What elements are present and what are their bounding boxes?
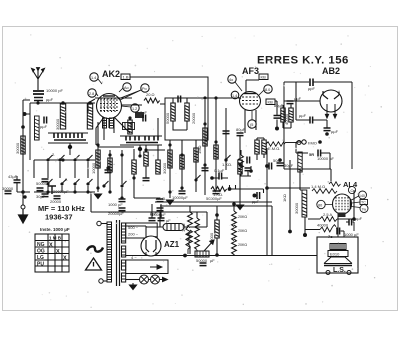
tuning gang row 1	[48, 133, 88, 143]
wire bus98 dots	[203, 96, 206, 99]
tube AZ1 anodes	[146, 240, 156, 252]
capacitor 160b	[157, 208, 164, 211]
terminal det	[297, 141, 301, 145]
capacitor 1000uF	[119, 199, 126, 202]
capacitor 30uF	[42, 194, 49, 197]
speaker terminal 2	[347, 271, 351, 275]
output transformer winding	[330, 244, 346, 250]
zig resistor 1K vertical	[239, 155, 244, 171]
svg-text:NG: NG	[37, 242, 45, 248]
band switch row A	[47, 155, 53, 161]
wire caps link	[341, 222, 354, 237]
switch 226	[225, 155, 231, 161]
svg-text:2.5 A: 2.5 A	[323, 212, 332, 217]
node 216b	[214, 96, 217, 99]
svg-text:KB: KB	[261, 75, 267, 80]
tube AL4 grids	[336, 197, 348, 211]
svg-text:2.: 2.	[65, 177, 68, 182]
pin circle af3 bottom	[248, 120, 256, 128]
svg-text:AF3: AF3	[242, 66, 259, 76]
resistor 217	[215, 220, 219, 238]
switch 196	[195, 175, 201, 181]
node h	[214, 140, 217, 143]
svg-text:2.: 2.	[52, 152, 55, 157]
band switch	[61, 179, 67, 185]
svg-text:Inste. 1000 µF: Inste. 1000 µF	[40, 227, 70, 232]
svg-text:µµF: µµF	[40, 124, 48, 129]
capacitor 182	[179, 191, 186, 194]
coil IFT1 b	[185, 103, 189, 121]
svg-text:1KΩ: 1KΩ	[282, 194, 287, 202]
tube AZ1 pins	[146, 236, 156, 256]
svg-text:AB2: AB2	[322, 66, 340, 76]
capacitor 216	[213, 191, 220, 194]
node left top	[21, 125, 25, 129]
wire vert 216	[215, 98, 217, 190]
zig chain c	[232, 239, 237, 255]
svg-text:30000: 30000	[294, 202, 299, 214]
capacitor 152	[149, 218, 156, 221]
svg-text:2pF: 2pF	[140, 110, 147, 115]
zig resistor 1K horizontal	[211, 187, 227, 192]
wire 5R	[296, 142, 308, 153]
wire 217	[216, 206, 218, 254]
node gang1	[68, 145, 72, 149]
wire fuse	[146, 226, 188, 228]
capacitor 0.1uF	[219, 173, 222, 180]
primary winding	[107, 222, 112, 282]
node b	[108, 153, 111, 156]
wire mains lead top	[101, 223, 107, 225]
node bus 185	[183, 254, 187, 258]
tube AF3 envelope	[240, 92, 261, 111]
svg-text:80µF: 80µF	[236, 127, 246, 132]
wire vert 98	[97, 122, 99, 192]
svg-text:µpF: µpF	[308, 86, 316, 91]
tube AB2 pins	[325, 104, 336, 118]
pin circle 140	[359, 191, 367, 199]
svg-text:20000: 20000	[191, 112, 196, 124]
capacitor det2	[269, 163, 272, 170]
pot box 50000	[195, 251, 209, 257]
earth terminal circle	[21, 205, 25, 209]
dial lamp 2	[151, 275, 160, 284]
coil antenna secondary	[87, 104, 92, 129]
svg-text:AK2: AK2	[102, 69, 120, 79]
pin circle af3 left	[231, 91, 239, 99]
node gang2	[138, 147, 142, 151]
svg-text:40000: 40000	[284, 113, 289, 125]
tube base bar 1	[103, 118, 107, 128]
wire bus 206	[160, 205, 272, 207]
ground earth arrow	[19, 209, 28, 223]
node 305	[303, 233, 307, 237]
zig resistor 197	[195, 218, 200, 234]
node det2	[265, 164, 269, 168]
node x5	[86, 190, 89, 193]
svg-text:2.8: 2.8	[89, 92, 94, 96]
svg-text:1.4: 1.4	[232, 94, 237, 98]
svg-text:C: C	[351, 189, 354, 193]
coil det a	[281, 108, 285, 122]
node 247	[249, 169, 253, 173]
wire coil det	[283, 105, 291, 129]
node g2	[203, 163, 206, 166]
wire vert 267	[266, 148, 268, 255]
capacitor 160	[157, 199, 164, 202]
wire tube down	[104, 118, 114, 140]
svg-text:10000µF: 10000µF	[172, 195, 188, 200]
svg-text:µµF: µµF	[294, 96, 302, 101]
svg-text:µF: µF	[166, 218, 171, 223]
wire lower bus	[34, 186, 95, 192]
resistor left 30000	[21, 136, 25, 154]
node 108	[106, 166, 109, 169]
coil det b	[289, 108, 293, 122]
pickup S symbol	[87, 246, 103, 251]
field coil box	[328, 251, 348, 257]
resistor 300 vertical	[298, 152, 302, 172]
band switch row B	[47, 179, 53, 185]
svg-text:1.4: 1.4	[91, 76, 96, 80]
tube AZ1 envelope	[141, 236, 161, 256]
wire vert 158	[157, 118, 159, 160]
pot wiper arrow	[204, 240, 214, 251]
svg-text:10000: 10000	[91, 162, 96, 174]
svg-text:80: 80	[318, 204, 322, 208]
node a	[96, 143, 99, 146]
node top	[61, 101, 64, 104]
node 234	[232, 202, 236, 206]
lamp box	[126, 260, 168, 274]
node 140b	[138, 154, 141, 157]
svg-text:µF: µF	[210, 258, 215, 263]
wire horiz 98	[208, 97, 240, 99]
band switch	[74, 179, 80, 185]
wire tube diagonal 2	[96, 117, 104, 145]
svg-text:30000: 30000	[15, 142, 20, 154]
node e	[168, 143, 171, 146]
wire left vertical	[22, 100, 24, 205]
tube AK2 grids	[100, 98, 118, 112]
capacitor 2000uF	[119, 208, 126, 211]
wire mains lead bottom	[103, 280, 107, 282]
svg-text:7w: 7w	[362, 208, 367, 212]
wire 290 vertical	[289, 160, 291, 230]
wire mains corner	[91, 192, 160, 212]
svg-text:E.M.Ω.: E.M.Ω.	[268, 146, 280, 151]
node 267	[265, 186, 269, 190]
node x2	[180, 153, 183, 156]
capacitor 5R	[318, 150, 321, 157]
warning triangle	[86, 258, 102, 270]
tube AB2 diode left	[323, 91, 328, 99]
ground osc	[166, 200, 173, 205]
svg-text:20.Ω: 20.Ω	[146, 92, 155, 97]
svg-text:E010: E010	[330, 252, 340, 257]
coil IFT2 b	[262, 140, 266, 154]
speaker cone	[324, 257, 352, 266]
tube AK2 envelope	[97, 94, 122, 119]
node bus	[215, 253, 219, 257]
wires af3 pins	[235, 82, 264, 120]
switch mid2	[121, 181, 127, 187]
tube AL4 envelope	[333, 194, 352, 214]
HT label box	[126, 223, 158, 238]
coil box outline	[165, 98, 208, 140]
pin circle a1	[123, 83, 131, 91]
tube AF3 grids	[242, 97, 258, 104]
svg-text:1000 µF: 1000 µF	[344, 232, 359, 237]
wire bottom bus 255	[126, 255, 317, 257]
wire earth link	[17, 176, 30, 192]
pin circle g4	[131, 104, 139, 112]
secondary winding 4	[122, 273, 126, 282]
wire ab2 bottom	[284, 153, 330, 169]
svg-text:20KΩ: 20KΩ	[238, 229, 247, 233]
band switch	[87, 179, 93, 185]
svg-text:1000 µF: 1000 µF	[108, 202, 123, 207]
wire vert 272	[271, 206, 273, 255]
svg-text:(5: (5	[250, 123, 253, 127]
wire input box top	[30, 103, 95, 160]
node lower2	[73, 190, 76, 193]
tube AK2 anode bar	[103, 95, 115, 97]
node lower	[46, 190, 49, 193]
wire az1 plate box	[160, 212, 207, 227]
svg-text:AZ1: AZ1	[164, 240, 180, 249]
wire af3 down	[240, 110, 256, 160]
svg-text:1 K Ω: 1 K Ω	[155, 196, 165, 201]
zig coupling	[329, 182, 341, 186]
svg-text:µµF: µµF	[355, 216, 363, 221]
wire vert 134	[133, 149, 135, 160]
wire lamp link	[149, 279, 151, 281]
component box 20000	[123, 123, 135, 130]
capacitor ab2 a	[310, 117, 313, 124]
pin circle af3 right	[264, 85, 272, 93]
wire cross 147	[98, 146, 134, 148]
capacitor uuF right	[349, 219, 352, 226]
tube AB2 envelope	[320, 90, 342, 112]
wire vert 205	[204, 100, 206, 195]
node fm1	[325, 132, 329, 136]
node 280	[278, 158, 282, 162]
capacitor 50000pF	[42, 179, 49, 182]
svg-text:KB: KB	[268, 100, 274, 105]
zig resistor 190b	[188, 230, 193, 246]
capacitor 146	[143, 178, 150, 181]
ground af3	[236, 205, 243, 210]
wire ab2 box top right	[284, 82, 352, 169]
secondary winding HT	[122, 223, 126, 243]
zig chain b	[232, 225, 237, 241]
wire left drop	[299, 169, 301, 190]
wire bus 202	[155, 201, 272, 203]
capacitor 20000pF	[54, 196, 61, 199]
arrow heater 1	[150, 265, 162, 269]
node osc	[128, 116, 131, 119]
capacitor 205	[202, 168, 209, 171]
wire switch bus	[34, 160, 95, 178]
node 229	[228, 187, 232, 191]
node t	[23, 195, 26, 198]
svg-text:µµF: µµF	[331, 129, 339, 134]
node top2	[88, 101, 91, 104]
svg-text:30µF: 30µF	[36, 194, 46, 199]
tube base bar 2	[110, 118, 114, 128]
svg-text:4 ~: 4 ~	[131, 255, 137, 260]
svg-text:8µF: 8µF	[150, 211, 158, 216]
box SR dark	[338, 213, 346, 218]
wire horiz 188	[267, 187, 310, 189]
coil antenna primary	[60, 104, 65, 129]
svg-text:FMO: FMO	[308, 141, 317, 146]
svg-text:200 ~: 200 ~	[128, 232, 139, 237]
wire mid bus	[95, 97, 132, 99]
capacitor ift top	[178, 96, 181, 103]
FMO terminal	[302, 140, 306, 144]
wire 01uf	[212, 177, 228, 179]
transformer core	[117, 220, 120, 286]
node x1	[108, 190, 111, 193]
node det	[275, 127, 279, 131]
wire vert 170 low	[169, 140, 171, 198]
svg-text:Ao: Ao	[124, 86, 129, 90]
node 98b	[96, 186, 99, 189]
capacitor 80uF det	[274, 116, 281, 119]
svg-text:ERRES K.Y. 156: ERRES K.Y. 156	[257, 55, 349, 67]
svg-text:X: X	[63, 256, 67, 262]
box KB1	[259, 74, 268, 80]
svg-text:30000: 30000	[162, 162, 167, 174]
capacitor ab2 b	[324, 128, 331, 131]
wire grid cap	[88, 99, 95, 112]
node input junction	[23, 112, 27, 116]
secondary winding 2	[122, 246, 126, 257]
zig resistor 188 vertical	[186, 227, 190, 254]
resistor 170	[168, 150, 172, 168]
svg-text:43µF: 43µF	[8, 174, 18, 179]
wire ab2 box top left	[284, 81, 309, 83]
svg-text:LG: LG	[37, 255, 44, 261]
wire al4 mid	[305, 190, 354, 237]
node f	[180, 186, 183, 189]
osc coil zig	[144, 98, 160, 103]
svg-text:20000: 20000	[50, 199, 62, 204]
wire 189 link	[236, 185, 264, 193]
svg-text:8.0: 8.0	[265, 88, 270, 92]
wire 134 low	[134, 174, 160, 198]
resistor 146	[144, 152, 148, 166]
svg-text:µµF: µµF	[299, 113, 307, 118]
svg-text:OG: OG	[37, 249, 45, 255]
wire az1 top pins	[146, 252, 156, 256]
wire vert 110	[109, 150, 111, 192]
tube AL4 cathode bar	[350, 199, 352, 209]
arrow heater 2	[160, 277, 168, 281]
svg-text:µµF: µµF	[46, 97, 54, 102]
pot hatch	[197, 251, 206, 257]
svg-text:1 M B: 1 M B	[49, 236, 62, 241]
box KB2	[266, 99, 275, 105]
svg-text:30000: 30000	[55, 118, 60, 130]
pin circle C	[348, 186, 355, 193]
capacitor 30uF top	[310, 79, 313, 87]
capacitor trimmer left	[44, 117, 47, 124]
resistor 158	[156, 160, 160, 174]
ground lamps	[129, 285, 136, 290]
node 146	[144, 148, 147, 151]
capacitor 161	[158, 218, 165, 221]
capacitor 1000	[337, 228, 340, 235]
wire ift inner	[173, 98, 187, 130]
wire ab2 mid	[296, 82, 310, 120]
node g	[203, 122, 206, 125]
resistor 110	[108, 158, 112, 172]
resistor osc grid	[128, 120, 132, 134]
node fmo dot	[318, 140, 322, 144]
wire gang down	[69, 143, 71, 155]
speaker terminal 1	[326, 271, 330, 275]
svg-text:20KΩ: 20KΩ	[238, 215, 247, 219]
svg-text:1.2: 1.2	[132, 107, 137, 111]
capacitor af3 cath	[245, 168, 252, 171]
wire 229	[230, 185, 236, 189]
node 212	[210, 176, 214, 180]
svg-text:140: 140	[359, 194, 365, 198]
svg-text:10000 pF: 10000 pF	[46, 88, 63, 93]
band table grid	[35, 234, 69, 272]
wire vert 226	[225, 108, 227, 170]
resistor 1.4M zig	[312, 189, 337, 194]
wire ab2 left	[284, 100, 320, 102]
pin circle 80	[317, 200, 325, 208]
node x4	[61, 158, 64, 161]
wire cross 150	[146, 149, 165, 151]
wire af3 low	[240, 171, 248, 205]
zig resistor 190	[188, 212, 193, 228]
secondary winding 3	[122, 260, 126, 270]
coil input extra	[35, 116, 40, 140]
pin circle g1	[90, 73, 98, 81]
svg-text:AL4: AL4	[343, 180, 358, 189]
wire left top	[23, 100, 30, 114]
capacitor det top	[287, 101, 294, 104]
wire lamp gnd	[132, 283, 134, 285]
capacitor 43uF	[14, 180, 21, 183]
svg-text:PU: PU	[37, 262, 44, 268]
switch mid	[103, 181, 109, 187]
wire vert 122	[121, 150, 123, 198]
svg-text:1.KΩ.: 1.KΩ.	[213, 192, 223, 197]
node d	[132, 176, 135, 179]
component box dark	[135, 112, 144, 118]
svg-text:1.B: 1.B	[123, 75, 129, 80]
capacitor 226	[223, 131, 230, 134]
node 217	[215, 213, 219, 217]
svg-text:0.1µF: 0.1µF	[214, 168, 225, 173]
svg-text:30000: 30000	[2, 186, 14, 191]
resistor 2.5A zig	[320, 217, 337, 222]
wire gang2 stem	[139, 145, 141, 156]
wire af3 top	[246, 80, 259, 92]
capacitor 108	[105, 170, 112, 173]
svg-text:50000: 50000	[36, 181, 48, 186]
svg-text:Po: Po	[142, 87, 147, 91]
wire 146	[145, 145, 147, 178]
node x3	[224, 158, 227, 161]
